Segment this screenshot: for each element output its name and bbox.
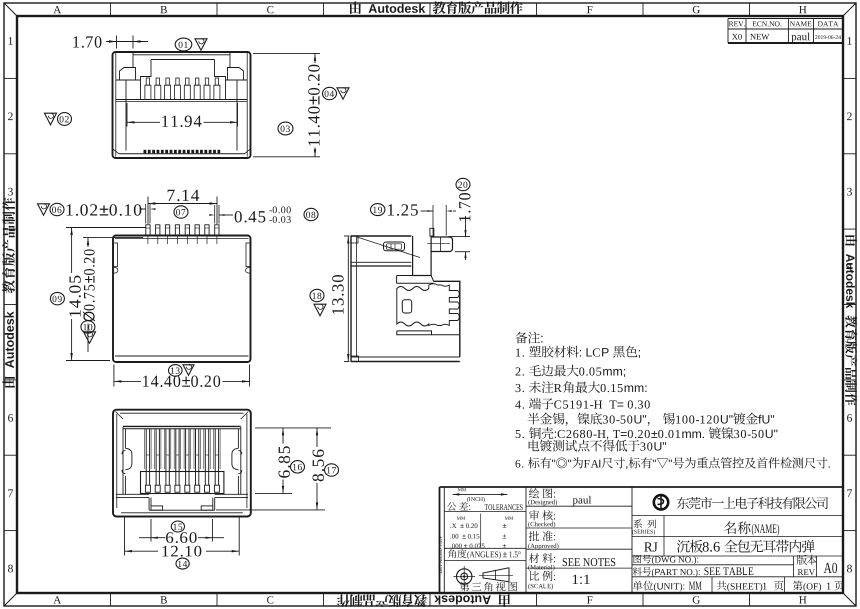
- top view: left side tab + notch: [113, 243, 117, 267]
- top view: right side tab + notch: [246, 243, 250, 267]
- side view: top-left corner tab: [351, 236, 358, 243]
- front view: left latch tab: [120, 68, 136, 81]
- balloon 18: [310, 289, 324, 301]
- dim 13.30 (left of side view): [344, 235, 350, 237]
- triangle mark 04: [337, 88, 349, 99]
- triangle mark 13: [183, 365, 194, 375]
- balloon 01: [175, 38, 192, 51]
- notes block: [515, 332, 527, 344]
- front view: contact comb (8 teeth + slots): [146, 78, 149, 85]
- bottom view: back wall double line: [123, 425, 241, 427]
- bottom view: inner side walls: [122, 427, 124, 494]
- balloon 14: [176, 558, 189, 569]
- dim 1.70 (front view): [73, 36, 101, 48]
- bottom view: solder tab recess floor: [149, 509, 215, 511]
- dim 6.60 (below bottom view): [150, 519, 152, 542]
- side view: stamped slot: [384, 242, 405, 251]
- dwg no row: [632, 564, 794, 566]
- side view: body outline right: [434, 281, 460, 357]
- bottom view: right wall notch: [232, 448, 242, 473]
- dim 1.25 (side view): [388, 204, 418, 215]
- dim 12.10 (below bottom view): [124, 518, 126, 556]
- part name row: [632, 555, 843, 557]
- side view: top shield band: [351, 235, 411, 237]
- series/name row: [632, 536, 843, 538]
- part no row: [632, 576, 843, 578]
- bottom view: bottom step ledges: [116, 493, 149, 495]
- dim 6.85 (right of bottom view): [255, 427, 331, 429]
- side view: top peg: [431, 237, 452, 252]
- revision table: [728, 18, 843, 20]
- bottom view: center terminal block: [141, 472, 224, 494]
- balloon 19: [371, 204, 385, 216]
- dim 0.75±0.20 (left of top view): [83, 237, 143, 239]
- title block: narrow left strip: [443, 487, 445, 593]
- balloon 02: [58, 113, 72, 126]
- side view: band bottom double lines: [351, 261, 411, 263]
- side view: small pin on peg: [430, 228, 434, 236]
- tolerance table: [457, 517, 465, 520]
- dim 8.56 (right of bottom view): [216, 509, 325, 511]
- bottom view: 8 contact fingers: [145, 429, 147, 485]
- side view: upper ledge: [397, 276, 434, 284]
- balloon 13: [169, 365, 183, 377]
- dim 11.40±0.20 (front view): [253, 52, 320, 54]
- dim 11.94 (front view): [126, 103, 128, 127]
- side view: bottom lines: [351, 356, 460, 358]
- tolerance box: header: [447, 502, 456, 511]
- triangle mark 01: [195, 39, 207, 50]
- bottom view: solder tabs: [151, 506, 163, 510]
- front view: 1.70 step vertical: [132, 53, 134, 68]
- title block: main vertical dividers: [525, 487, 527, 593]
- bottom view: corner chamfers: [116, 412, 124, 420]
- rev cell: [793, 556, 795, 577]
- third angle projection symbol: [457, 569, 472, 584]
- bottom view: left wall notch: [122, 448, 132, 473]
- watermark bottom (rotated 180): [337, 594, 510, 607]
- balloon 17: [325, 464, 339, 476]
- cone symbol: [483, 568, 509, 582]
- angles row: [448, 549, 456, 558]
- top view: body: [113, 236, 251, 363]
- top view: 8 terminal pins: [146, 225, 150, 236]
- side view: latch block: [413, 236, 432, 276]
- unit row: [711, 577, 713, 593]
- front view: shoulder lines y=80: [116, 79, 141, 81]
- side view: front face double line: [350, 236, 352, 362]
- front view: inner side wall lines: [115, 53, 117, 157]
- front view: top wall inner line: [133, 54, 230, 56]
- side view: lower ledge: [397, 331, 460, 335]
- watermark left (rotated -90): [2, 198, 15, 388]
- balloon 09: [50, 292, 64, 304]
- corner diagonals: [4, 3, 17, 16]
- front view: right latch tab: [228, 68, 244, 81]
- side view: comb cavity (jagged cutout): [397, 284, 460, 326]
- balloon 07: [174, 206, 188, 218]
- balloon 04: [323, 87, 337, 99]
- company row: [632, 515, 843, 517]
- dim 1.70 (side view peg): [448, 236, 470, 238]
- dim 1.02±0.10 (top view): [67, 204, 142, 216]
- triangle mark 02: [45, 113, 57, 125]
- front view: bottom inner lines: [119, 153, 245, 155]
- dim 14.05 (left of top view): [66, 227, 146, 229]
- top view: inner top line: [115, 238, 249, 240]
- triangle mark 06: [38, 204, 50, 215]
- watermark top: [350, 1, 523, 14]
- front view: comb bottom double line: [116, 99, 247, 101]
- front view: plug cavity outline: [141, 60, 226, 100]
- top view: inner bottom line: [115, 355, 249, 357]
- bottom view: outer body: [113, 410, 251, 517]
- third angle view label: [460, 582, 470, 592]
- front view: outer shield body: [113, 52, 251, 158]
- bottom view: outer offset lines: [116, 414, 118, 508]
- balloon 08: [304, 208, 318, 220]
- balloon 15: [171, 521, 184, 532]
- side view: small hole: [402, 300, 411, 313]
- dim 0.45 -0.00/-0.03 (top view): [214, 205, 216, 224]
- triangle mark 18: [314, 304, 326, 316]
- balloon 10: [81, 321, 95, 333]
- balloon 16: [291, 461, 305, 473]
- dim 14.40±0.20 (below top view): [113, 365, 115, 387]
- balloon 03: [278, 122, 293, 135]
- grid row labels: [9, 37, 13, 45]
- dim 7.14 (top view): [147, 197, 149, 225]
- triangle mark 10: [84, 332, 96, 343]
- grid column labels: [53, 6, 61, 13]
- front view: inner wall verticals: [125, 80, 127, 151]
- company logo: [654, 495, 668, 509]
- balloon 06: [50, 203, 64, 215]
- designer column rows: [526, 505, 632, 507]
- grid row ticks left/right: [4, 77, 17, 79]
- bottom view: inner bottom line: [121, 512, 243, 514]
- balloon 20: [456, 178, 470, 190]
- tolerance box: inch arrow: [453, 493, 508, 495]
- grid column ticks top/bottom: [110, 3, 112, 16]
- watermark right (rotated 90): [845, 235, 857, 405]
- front view: bottom contact tails strip: [144, 150, 147, 154]
- title block outline: [440, 486, 844, 488]
